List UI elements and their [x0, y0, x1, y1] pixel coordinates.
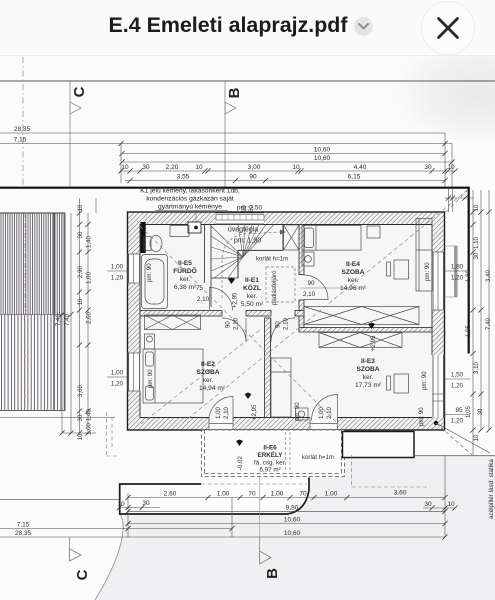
section line B through balcony area — [259, 477, 261, 538]
svg-text:10: 10 — [447, 501, 455, 508]
section marker C bottom — [70, 537, 82, 561]
stairs winder treads — [211, 225, 274, 279]
svg-text:3,10: 3,10 — [473, 361, 480, 373]
svg-text:K1 jelű kémény, lakásonként 1d: K1 jelű kémény, lakásonként 1db, — [140, 188, 240, 195]
svg-text:1,00: 1,00 — [111, 370, 124, 377]
stair opening boundary — [282, 225, 284, 251]
svg-text:10,60: 10,60 — [284, 530, 301, 537]
svg-text:1,00: 1,00 — [111, 264, 124, 271]
svg-text:+2,95: +2,95 — [251, 404, 258, 420]
bathroom wall / stair side — [210, 225, 212, 308]
wall outlines — [128, 212, 445, 430]
svg-text:1,20: 1,20 — [451, 383, 464, 390]
svg-text:korlát h=1m: korlát h=1m — [256, 256, 288, 263]
svg-text:90: 90 — [241, 205, 248, 212]
right wall window band (E3) — [432, 355, 445, 418]
svg-text:85: 85 — [455, 407, 463, 414]
door corridor->E4 — [304, 275, 329, 300]
svg-text:90: 90 — [225, 321, 232, 328]
terrain arc — [95, 514, 123, 600]
svg-text:30: 30 — [473, 252, 480, 259]
bathroom: WC — [144, 237, 151, 251]
section marker B top — [225, 81, 236, 187]
top boundary line — [0, 80, 495, 82]
svg-text:70: 70 — [248, 491, 256, 498]
E4 nightstand right — [367, 226, 380, 238]
svg-text:10,60: 10,60 — [314, 155, 331, 162]
outer wall: top — [128, 212, 445, 225]
svg-text:B: B — [226, 87, 243, 98]
svg-text:B: B — [264, 568, 281, 579]
E3 desk — [394, 374, 409, 393]
svg-text:gyártmányú kéménye: gyártmányú kéménye — [158, 204, 222, 211]
svg-text:II-E3: II-E3 — [361, 358, 375, 365]
svg-text:C: C — [74, 569, 91, 580]
svg-text:30: 30 — [477, 408, 484, 415]
svg-text:1,05: 1,05 — [465, 405, 472, 417]
partition wall corridor/E4 vertical — [299, 225, 304, 275]
svg-text:üvegtégla: üvegtégla — [228, 227, 258, 234]
svg-text:kondenzációs gázkazán saját: kondenzációs gázkazán saját — [146, 196, 234, 203]
E2 bed — [143, 349, 203, 403]
property line (orange dash-dot) — [22, 57, 24, 188]
gray terrain region bottom-right — [95, 456, 495, 600]
svg-text:1,40: 1,40 — [86, 235, 93, 247]
svg-text:II-E2: II-E2 — [201, 361, 215, 368]
svg-text:2,20: 2,20 — [166, 164, 179, 171]
svg-text:II-E4: II-E4 — [346, 261, 360, 268]
svg-text:padlásfeljáró: padlásfeljáró — [271, 270, 278, 305]
svg-text:5,50 m²: 5,50 m² — [241, 301, 264, 308]
svg-text:1,00: 1,00 — [217, 491, 230, 498]
downspout dashed — [285, 432, 287, 470]
E4 wardrobe column right wall — [416, 219, 432, 292]
svg-text:1,20: 1,20 — [111, 381, 124, 388]
svg-text:10,60: 10,60 — [314, 147, 331, 154]
E4 wardrobe — [304, 307, 419, 325]
svg-text:90: 90 — [307, 280, 315, 287]
room interiors fill — [140, 225, 432, 418]
external sliding shutter bar E4 window — [454, 246, 458, 297]
svg-text:14,96 m²: 14,96 m² — [340, 285, 367, 292]
partition wall corridor/E2-E3 horizontal — [140, 311, 222, 317]
bathroom: bathtub — [142, 255, 168, 309]
svg-text:10: 10 — [473, 434, 480, 441]
E3 wardrobe — [319, 333, 402, 348]
svg-text:1,10: 1,10 — [473, 236, 480, 248]
steel column point — [434, 421, 438, 425]
E3 cabinet tall — [271, 358, 291, 417]
svg-text:2,10: 2,10 — [303, 291, 316, 298]
room II-E1 KOZL — [241, 277, 264, 308]
svg-text:2,10: 2,10 — [326, 407, 333, 419]
closet with X near partition top — [284, 225, 300, 250]
svg-text:1,95: 1,95 — [465, 324, 472, 336]
dashed plot right of balcony — [107, 412, 431, 487]
svg-text:1,50: 1,50 — [451, 372, 464, 379]
top bar — [0, 0, 495, 56]
svg-text:1,00: 1,00 — [318, 407, 325, 419]
svg-text:II-E5: II-E5 — [178, 260, 192, 267]
svg-text:fá. csg. ker.: fá. csg. ker. — [254, 460, 286, 467]
svg-text:1,00: 1,00 — [325, 491, 338, 498]
svg-text:1,80: 1,80 — [451, 264, 464, 271]
svg-text:30: 30 — [77, 231, 84, 238]
svg-text:ker.: ker. — [203, 377, 214, 384]
svg-text:60: 60 — [248, 205, 255, 212]
chimney flue black bar — [141, 222, 146, 253]
svg-text:C: C — [71, 86, 88, 97]
attic hatch (padlasfeljaro) dashed — [266, 267, 295, 302]
svg-text:2,90: 2,90 — [77, 265, 84, 277]
svg-text:1,00: 1,00 — [215, 407, 222, 419]
terrace below outline thick — [120, 478, 309, 515]
railing line right of balcony — [343, 432, 415, 458]
svg-text:10: 10 — [195, 164, 203, 171]
room II-E3 SZOBA — [355, 358, 382, 389]
svg-text:3,55: 3,55 — [177, 174, 190, 181]
svg-text:ker.: ker. — [363, 374, 374, 381]
svg-text:pm: 90: pm: 90 — [294, 402, 301, 421]
svg-text:2,10: 2,10 — [283, 318, 290, 330]
balcony door E3 — [312, 395, 338, 421]
chevron button — [354, 17, 373, 36]
roof valley dashed A — [140, 226, 336, 422]
svg-text:SZOBA: SZOBA — [341, 269, 364, 276]
svg-text:28,35: 28,35 — [15, 530, 32, 537]
bathroom: washbasin — [170, 226, 189, 237]
svg-text:pm: 90: pm: 90 — [147, 369, 154, 388]
svg-text:10: 10 — [77, 298, 84, 305]
svg-text:10: 10 — [473, 204, 480, 211]
svg-text:10,60: 10,60 — [284, 517, 301, 524]
svg-text:1,00: 1,00 — [86, 271, 93, 283]
neighbour roof band (left) — [0, 213, 65, 411]
svg-text:+2,95: +2,95 — [370, 335, 377, 351]
balcony door E2 — [209, 397, 233, 421]
stair walk line with arrow — [222, 232, 280, 298]
balcony diag left — [202, 431, 244, 476]
E4 nightstand below with lamp — [302, 252, 314, 266]
svg-text:30: 30 — [77, 414, 84, 421]
svg-text:korlát h=1m: korlát h=1m — [302, 454, 334, 461]
svg-text:ker.: ker. — [247, 293, 258, 300]
left wall window — [128, 353, 141, 391]
svg-text:10: 10 — [77, 204, 84, 211]
svg-text:SZOBA: SZOBA — [196, 369, 219, 376]
svg-text:70: 70 — [299, 491, 307, 498]
svg-text:14,94 m²: 14,94 m² — [199, 385, 226, 392]
section marker C top — [70, 81, 81, 187]
roof valley dashed B — [182, 190, 468, 424]
svg-text:7,40: 7,40 — [485, 317, 492, 329]
svg-text:3,60: 3,60 — [394, 490, 407, 497]
corner dashed top-right — [446, 190, 468, 212]
partition wall E4/E3 — [299, 328, 432, 333]
door corridor->E3 — [271, 318, 295, 342]
top wall opening: glass block (uvegtegla) — [216, 212, 264, 225]
room II-E4 SZOBA — [340, 261, 367, 292]
svg-text:10: 10 — [117, 501, 125, 508]
svg-text:7,15: 7,15 — [17, 522, 30, 529]
svg-text:7,15: 7,15 — [14, 137, 27, 144]
section marker B bottom — [260, 537, 272, 564]
balcony diag right — [302, 431, 344, 476]
svg-text:3,40: 3,40 — [485, 269, 492, 281]
room II-E6 ERKELY — [254, 445, 286, 474]
room II-E2 SZOBA — [196, 361, 225, 392]
E4 bed — [302, 226, 361, 251]
top wall opening: chimney K1 — [188, 222, 201, 233]
room II-E5 FURDO — [173, 260, 197, 291]
svg-text:4,40: 4,40 — [354, 164, 367, 171]
svg-text:ker.: ker. — [180, 276, 191, 283]
soft gray shade top-right — [393, 37, 495, 147]
E2 cabinet — [145, 334, 155, 349]
roof outline thick — [0, 187, 469, 189]
svg-text:3,00: 3,00 — [248, 164, 261, 171]
svg-text:90: 90 — [275, 321, 282, 328]
small notes — [228, 205, 334, 462]
svg-text:+2,95: +2,95 — [232, 292, 239, 308]
svg-text:3,60: 3,60 — [77, 384, 84, 396]
svg-text:6,15: 6,15 — [348, 174, 361, 181]
window dim 1,00/1,20 upper — [107, 271, 128, 377]
level marker symbols — [228, 278, 375, 447]
svg-text:ker.: ker. — [348, 277, 359, 284]
svg-text:9,80: 9,80 — [286, 504, 299, 511]
svg-text:pm: 1,90: pm: 1,90 — [234, 238, 261, 245]
svg-text:1,00: 1,00 — [271, 491, 284, 498]
svg-text:SZOBA: SZOBA — [356, 366, 379, 373]
svg-text:KÖZL: KÖZL — [243, 283, 261, 292]
svg-text:1,20: 1,20 — [111, 275, 124, 282]
outer wall: bottom segments — [128, 418, 210, 431]
svg-text:1,20: 1,20 — [451, 418, 464, 425]
left wall window bathroom — [128, 254, 141, 283]
svg-text:2,60: 2,60 — [86, 311, 93, 323]
door bathroom — [210, 288, 233, 311]
svg-text:2,10: 2,10 — [197, 296, 210, 303]
svg-text:30: 30 — [424, 164, 432, 171]
svg-text:ERKÉLY: ERKÉLY — [258, 450, 284, 459]
svg-text:2,10: 2,10 — [233, 318, 240, 330]
E4 desk — [394, 260, 409, 279]
svg-text:pm: 90: pm: 90 — [146, 263, 153, 282]
svg-text:pm: 90: pm: 90 — [421, 371, 428, 390]
svg-text:1,00: 1,00 — [86, 422, 93, 434]
partition wall E2/E3 vertical — [265, 318, 271, 418]
svg-text:II-E1: II-E1 — [245, 277, 259, 284]
svg-text:FÜRDŐ: FÜRDŐ — [173, 266, 196, 275]
svg-text:II-E6: II-E6 — [263, 445, 277, 452]
top dimension block — [0, 133, 455, 188]
svg-text:30: 30 — [142, 164, 150, 171]
svg-text:2,10: 2,10 — [223, 407, 230, 419]
svg-text:1,20: 1,20 — [451, 275, 464, 282]
svg-text:90: 90 — [249, 174, 257, 181]
svg-text:pm: 90: pm: 90 — [418, 407, 425, 426]
right wall window (E4) — [432, 252, 445, 310]
svg-text:pm: 90: pm: 90 — [424, 262, 431, 281]
svg-text:2,60: 2,60 — [164, 491, 177, 498]
door corridor->E2 — [222, 318, 246, 342]
outer wall: left — [128, 212, 141, 430]
svg-text:28,35: 28,35 — [14, 126, 31, 133]
bottom wall door gaps framing — [209, 418, 338, 431]
svg-text:-0,02: -0,02 — [237, 455, 244, 470]
svg-text:6,97 m²: 6,97 m² — [259, 467, 280, 474]
svg-text:6,38 m²: 6,38 m² — [174, 284, 197, 291]
svg-text:30: 30 — [424, 501, 432, 508]
E2 wardrobe — [145, 315, 201, 330]
K1 chimney note — [140, 188, 240, 211]
svg-text:1,80: 1,80 — [465, 269, 472, 281]
outer wall: right — [432, 212, 445, 355]
balcony dashed outline — [202, 430, 345, 477]
svg-text:acélpillér lásd: statika: acélpillér lásd: statika — [488, 459, 495, 519]
svg-text:17,73 m²: 17,73 m² — [355, 382, 382, 389]
close X button — [421, 1, 475, 55]
